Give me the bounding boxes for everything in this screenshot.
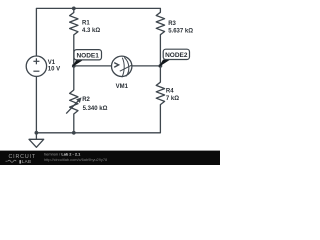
svg-text:4.3 kΩ: 4.3 kΩ (82, 28, 100, 34)
svg-text:R4: R4 (166, 89, 174, 95)
wire R2 bottom lead (73, 114, 75, 133)
ground (29, 133, 44, 148)
voltage source V1 (26, 56, 46, 76)
resistor R1 (70, 13, 78, 35)
junction dot top R1 (72, 6, 76, 10)
wire R3 bottom to node2 (159, 35, 161, 66)
wire V1 bottom to ground rail (35, 76, 37, 132)
junction dot node1 (72, 64, 76, 68)
arrowhead R2 (76, 97, 81, 103)
wire R1 bottom to node1 (73, 35, 75, 66)
svg-text:V1: V1 (48, 60, 56, 66)
wire node1 to R2 (73, 66, 75, 90)
svg-text:NODE1: NODE1 (76, 52, 99, 59)
footer bar (0, 151, 220, 165)
svg-text:R1: R1 (82, 21, 90, 27)
svg-text:7 kΩ: 7 kΩ (166, 96, 179, 102)
svg-text:5.340 kΩ: 5.340 kΩ (83, 106, 108, 112)
wire VM1 to node2 (132, 65, 161, 67)
node NODE1 flag (72, 60, 84, 67)
svg-text:NODE2: NODE2 (165, 52, 188, 59)
svg-text:▮LAB: ▮LAB (19, 159, 31, 164)
svg-text:http://circuitlab.com/c/6ab9hy: http://circuitlab.com/c/6ab9hyu29y78 (44, 157, 107, 162)
junction dot ground (35, 131, 39, 135)
wire R1 lead top (73, 8, 75, 12)
svg-text:VM1: VM1 (116, 84, 129, 90)
junction dot node2 (159, 64, 163, 68)
resistor R3 (156, 12, 164, 34)
junction dot R2 bottom (72, 131, 76, 135)
wire top rail (36, 8, 160, 56)
wire node1 to VM1 (74, 65, 112, 67)
svg-text:5.637 kΩ: 5.637 kΩ (168, 29, 193, 35)
voltmeter VM1 (112, 56, 132, 77)
resistor R4 (156, 82, 164, 104)
svg-text:10 V: 10 V (48, 67, 60, 73)
wire bottom rail (36, 105, 160, 133)
node NODE2 flag (158, 60, 170, 68)
svg-text:R2: R2 (82, 97, 90, 103)
potentiometer R2 (66, 90, 79, 114)
svg-text:R3: R3 (168, 21, 176, 27)
wire node2 to R4 (159, 66, 161, 82)
